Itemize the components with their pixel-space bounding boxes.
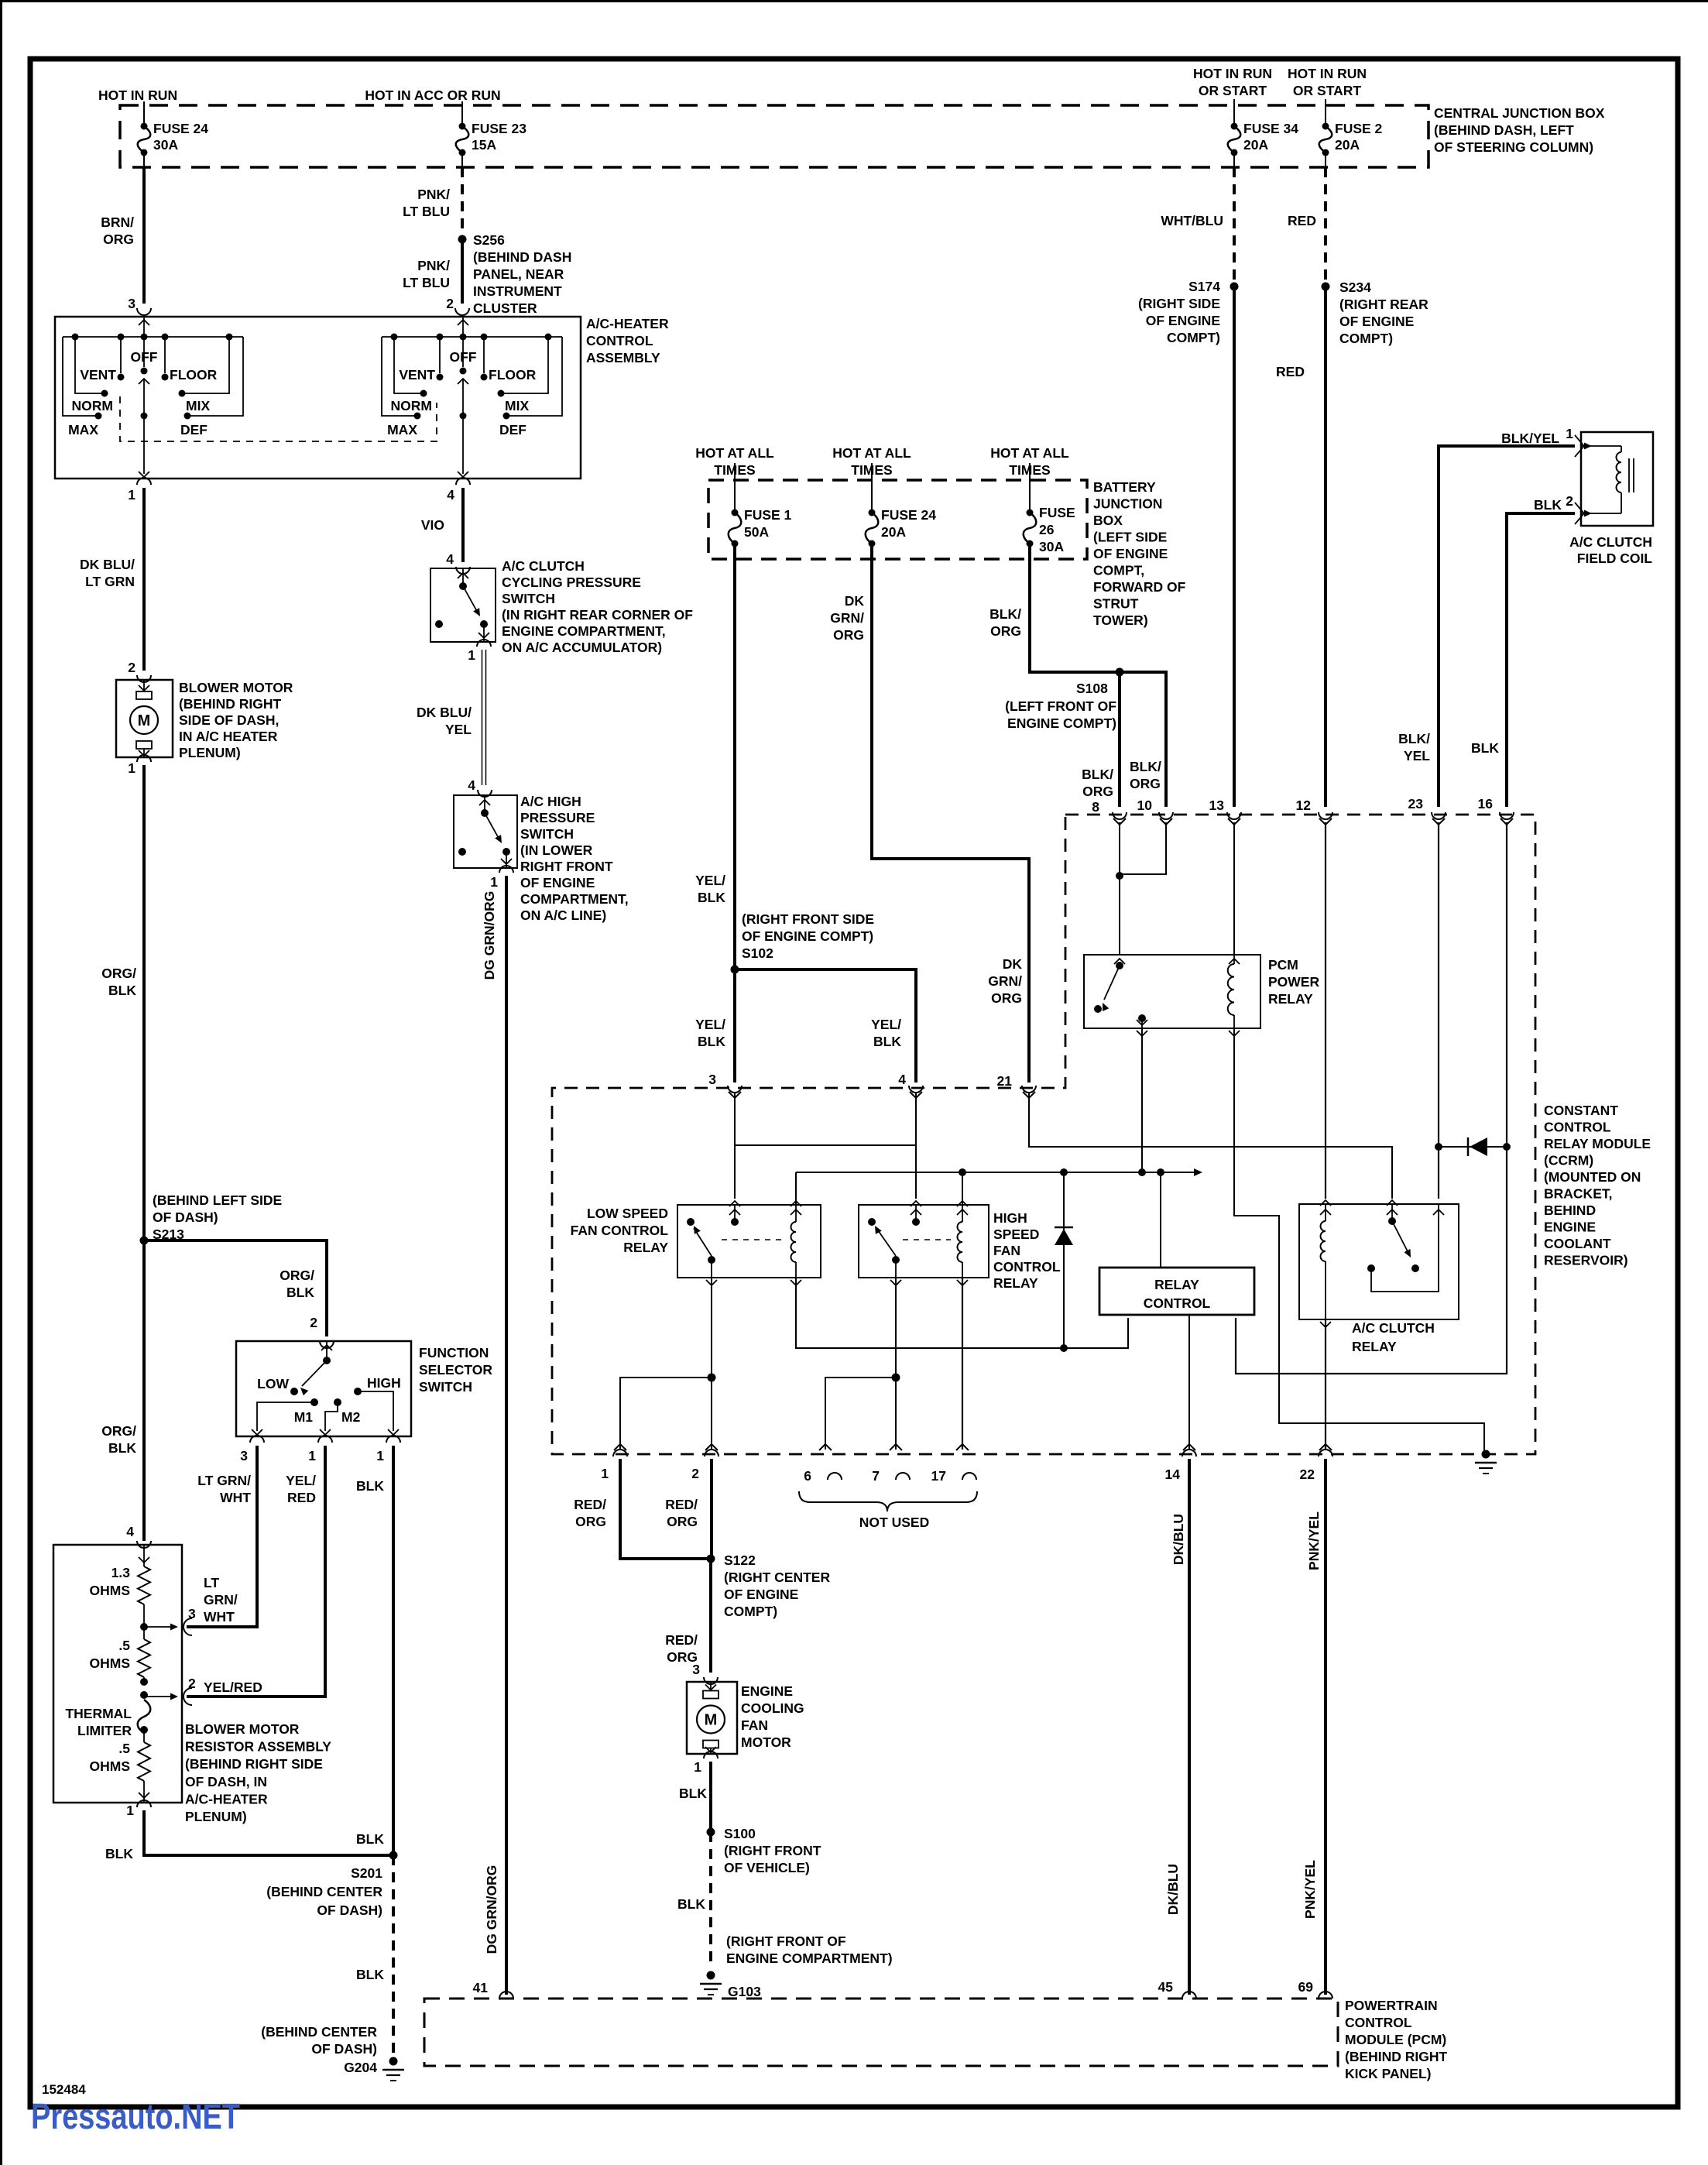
contact DEF with jumper [184, 413, 191, 420]
svg-text:LIMITER: LIMITER [77, 1723, 132, 1738]
svg-text:SIDE OF DASH,: SIDE OF DASH, [179, 712, 279, 728]
svg-text:FAN CONTROL: FAN CONTROL [571, 1223, 669, 1238]
wire fuse23 to S256 PNK/LT BLU dashed [461, 156, 463, 167]
svg-text:WHT/BLU: WHT/BLU [1161, 213, 1223, 228]
wire CCRM pin22 PNK/YEL to PCM pin 69 [1324, 1459, 1327, 1995]
svg-text:OF DASH): OF DASH) [153, 1209, 218, 1225]
resistor 1.3 ohms [138, 1566, 150, 1604]
svg-text:SWITCH: SWITCH [502, 591, 555, 606]
wire field coil pin1 to CCRM pin 23 BLK/YEL [1439, 446, 1575, 807]
svg-text:BLK/YEL: BLK/YEL [1501, 431, 1559, 446]
svg-text:PNK/YEL: PNK/YEL [1306, 1511, 1322, 1570]
high speed relay common node [912, 1218, 920, 1226]
high pressure switch pin 1 connector [499, 866, 513, 873]
contact MIX with jumper [498, 390, 505, 397]
splice S102 [731, 966, 739, 974]
svg-text:ORG: ORG [1130, 776, 1161, 791]
svg-text:BLK: BLK [356, 1967, 384, 1982]
svg-text:30A: 30A [153, 137, 178, 153]
svg-text:BLK: BLK [679, 1786, 707, 1801]
wire S213 branch to function selector ORG/BLK [144, 1240, 327, 1336]
svg-text:FUNCTION: FUNCTION [419, 1345, 489, 1360]
svg-text:RIGHT FRONT: RIGHT FRONT [520, 859, 613, 874]
svg-text:15A: 15A [472, 137, 496, 153]
svg-text:S102: S102 [742, 945, 773, 961]
svg-text:69: 69 [1298, 1979, 1314, 1995]
svg-text:4: 4 [898, 1072, 906, 1087]
svg-text:RELAY MODULE: RELAY MODULE [1544, 1136, 1651, 1151]
svg-text:.5: .5 [118, 1638, 130, 1653]
svg-text:WHT: WHT [204, 1609, 235, 1625]
cycling switch pin 4 connector [456, 567, 470, 574]
wire CCRM pin14 DK/BLU to PCM pin 45 [1188, 1459, 1191, 1995]
svg-text:ENGINE COMPARTMENT): ENGINE COMPARTMENT) [726, 1951, 893, 1966]
svg-text:RED: RED [1276, 364, 1305, 379]
svg-text:3: 3 [240, 1448, 248, 1463]
svg-text:BLK/: BLK/ [989, 606, 1021, 622]
PCM relay switch common node [1116, 962, 1123, 969]
wire control pin4 to cycling switch VIO [461, 488, 465, 562]
wire control pin1 to blower motor DK BLU/LT GRN [142, 488, 146, 671]
svg-text:(RIGHT REAR: (RIGHT REAR [1339, 297, 1428, 312]
svg-text:SPEED: SPEED [993, 1227, 1039, 1242]
svg-text:17: 17 [931, 1468, 946, 1484]
svg-text:ENGINE COMPARTMENT,: ENGINE COMPARTMENT, [502, 623, 666, 639]
svg-text:KICK PANEL): KICK PANEL) [1345, 2066, 1431, 2081]
low speed relay coil [795, 1205, 797, 1222]
PCM relay coil [1233, 955, 1235, 964]
scan artifact top edge line [0, 0, 1708, 2]
svg-text:(LEFT FRONT OF: (LEFT FRONT OF [1005, 698, 1116, 714]
svg-text:1: 1 [128, 487, 135, 503]
svg-text:(BEHIND RIGHT: (BEHIND RIGHT [1345, 2049, 1448, 2064]
fuse 26 30A [1027, 510, 1034, 516]
svg-text:(RIGHT FRONT SIDE: (RIGHT FRONT SIDE [742, 911, 874, 927]
svg-text:1: 1 [308, 1448, 316, 1463]
svg-text:HOT IN RUN: HOT IN RUN [1288, 66, 1367, 81]
svg-text:BLOWER MOTOR: BLOWER MOTOR [179, 680, 293, 695]
high speed relay output wire [895, 1260, 897, 1278]
svg-text:GRN/: GRN/ [988, 973, 1022, 989]
cycling switch pin 1 connector [477, 640, 491, 647]
svg-text:FIELD COIL: FIELD COIL [1577, 551, 1653, 566]
contact OFF [143, 337, 145, 367]
svg-text:RED: RED [1288, 213, 1316, 228]
fuse F24 feed stub [143, 101, 145, 123]
high speed relay NO contact [868, 1218, 876, 1226]
svg-text:RELAY: RELAY [993, 1275, 1038, 1291]
svg-text:YEL/: YEL/ [695, 1017, 725, 1032]
thermal limiter [138, 1700, 151, 1733]
wire pin3 to low speed relay common [734, 1093, 736, 1199]
contact OFF [462, 337, 464, 367]
svg-text:A/C CLUTCH: A/C CLUTCH [1352, 1320, 1435, 1336]
svg-text:YEL/: YEL/ [695, 873, 725, 888]
fan motor pin 1 connector [704, 1752, 718, 1758]
svg-text:(BEHIND RIGHT SIDE: (BEHIND RIGHT SIDE [185, 1756, 323, 1772]
svg-text:PCM: PCM [1268, 957, 1298, 973]
svg-text:20A: 20A [881, 524, 906, 540]
function selector switch box [236, 1341, 411, 1436]
resistor tap to pin 3 [143, 1604, 145, 1627]
svg-text:OF DASH, IN: OF DASH, IN [185, 1774, 267, 1789]
A/C clutch relay contact right [1411, 1264, 1419, 1272]
svg-text:14: 14 [1165, 1467, 1181, 1482]
fuse 1 50A [732, 510, 739, 516]
svg-text:ENGINE: ENGINE [1544, 1220, 1596, 1235]
svg-text:1: 1 [694, 1759, 701, 1775]
clamp diode D1 [1063, 1172, 1065, 1348]
svg-text:12: 12 [1296, 798, 1312, 813]
svg-text:FUSE: FUSE [1039, 505, 1075, 520]
svg-text:BLK: BLK [108, 983, 136, 998]
svg-text:S234: S234 [1339, 280, 1371, 295]
wire HIGH to pin 1 right [358, 1391, 393, 1431]
low speed relay common node [731, 1218, 739, 1226]
svg-text:(BEHIND RIGHT: (BEHIND RIGHT [179, 696, 282, 712]
svg-text:3: 3 [708, 1072, 716, 1087]
PCM relay switch arm [1104, 966, 1120, 1000]
high pressure switch open contact [458, 848, 466, 856]
resistor feed arrow [143, 1545, 145, 1566]
svg-text:SWITCH: SWITCH [419, 1379, 472, 1395]
contact M1 [310, 1398, 318, 1406]
svg-text:OR START: OR START [1199, 83, 1267, 98]
wire pin13 to PCM relay coil [1233, 822, 1235, 955]
svg-text:30A: 30A [1039, 539, 1064, 554]
svg-text:OHMS: OHMS [90, 1655, 131, 1671]
svg-text:CONTROL: CONTROL [993, 1259, 1061, 1275]
wire A/C clutch relay coil to CCRM pin 22 [1325, 1319, 1326, 1450]
svg-text:OF ENGINE: OF ENGINE [1339, 314, 1414, 329]
svg-text:OF ENGINE: OF ENGINE [1093, 546, 1168, 561]
splice S108 [1116, 668, 1124, 677]
svg-text:PLENUM): PLENUM) [179, 745, 241, 760]
low speed fan control relay box [677, 1205, 821, 1278]
cycling switch open contact [435, 620, 443, 628]
fuse 1 feed stub [734, 463, 736, 510]
CCRM pin 22 connector [1319, 1444, 1332, 1450]
resistor assembly pin 4 connector [137, 1541, 151, 1548]
svg-text:23: 23 [1408, 796, 1424, 811]
svg-text:LT: LT [204, 1575, 219, 1590]
field coil pin 2 connector [1575, 503, 1584, 524]
svg-text:20A: 20A [1335, 137, 1360, 153]
svg-text:CONTROL: CONTROL [1345, 2015, 1412, 2030]
node pin16 diode junction [1503, 1143, 1511, 1151]
node bus to clamp diode [1060, 1168, 1068, 1176]
wire bus to relay control box [1160, 1172, 1161, 1268]
svg-text:ORG/: ORG/ [280, 1268, 314, 1283]
wire field coil pin2 to CCRM pin 16 BLK [1507, 513, 1575, 807]
resistor tap to pin 2 [143, 1677, 145, 1682]
svg-text:(RIGHT FRONT: (RIGHT FRONT [724, 1843, 821, 1858]
wire to CCRM pin 2 [711, 1378, 712, 1450]
svg-text:HOT AT ALL: HOT AT ALL [990, 445, 1069, 461]
high pressure switch feed arrow [484, 795, 485, 810]
svg-text:21: 21 [997, 1073, 1013, 1089]
splice S122 [707, 1555, 715, 1563]
svg-text:FAN: FAN [993, 1243, 1020, 1258]
svg-text:DG GRN/ORG: DG GRN/ORG [482, 891, 497, 980]
svg-text:RELAY: RELAY [1154, 1277, 1199, 1292]
function selector feed arrow [326, 1341, 328, 1357]
wire cycling switch to high pressure switch DK BLU/YEL (double line) [482, 650, 483, 785]
fuse 24 bjb feed stub [871, 463, 873, 510]
high pressure switch output [506, 852, 507, 868]
field coil winding U1 [1581, 445, 1621, 447]
svg-text:FUSE 1: FUSE 1 [744, 507, 792, 523]
svg-text:1: 1 [490, 874, 498, 890]
svg-text:BLK: BLK [1471, 740, 1499, 756]
svg-text:POWER: POWER [1268, 974, 1319, 990]
resistor .5 ohms upper [143, 1627, 145, 1639]
svg-text:OF DASH): OF DASH) [317, 1903, 382, 1918]
high pressure switch arm [485, 813, 500, 841]
field coil pin 1 connector [1575, 435, 1584, 457]
svg-text:G204: G204 [344, 2060, 377, 2075]
relay control box [1099, 1268, 1254, 1315]
control assembly pin 4 connector [456, 478, 470, 485]
PCM power relay box [1084, 955, 1260, 1028]
A/C clutch relay box [1299, 1204, 1459, 1319]
node bus to high speed coil [959, 1168, 966, 1176]
wire high pressure switch to PCM pin 41 DG GRN/ORG [505, 876, 508, 1995]
svg-text:M2: M2 [341, 1409, 361, 1425]
svg-text:3: 3 [128, 296, 135, 311]
svg-text:SWITCH: SWITCH [520, 826, 574, 842]
node bus from PCM relay [1138, 1168, 1146, 1176]
svg-text:FUSE 2: FUSE 2 [1335, 121, 1383, 136]
wire fuse34 to S174 WHT/BLU dashed [1233, 156, 1235, 167]
low speed relay NO contact [687, 1218, 695, 1226]
contact VENT [120, 337, 122, 373]
svg-text:VENT: VENT [399, 367, 435, 383]
svg-text:BLOWER MOTOR: BLOWER MOTOR [185, 1721, 300, 1737]
function selector pin 1 connector (YEL/RED) [318, 1436, 332, 1443]
wire fan motor BLK to S100 [709, 1762, 712, 1832]
svg-text:2: 2 [1566, 493, 1573, 509]
svg-text:WHT: WHT [220, 1490, 251, 1505]
svg-text:PNK/: PNK/ [417, 258, 450, 273]
function selector wiper arm to LOW [302, 1360, 327, 1386]
wire fuse26 to S108 BLK/ORG [1030, 547, 1120, 672]
rotary output wire to exit pin [143, 416, 145, 474]
svg-text:BLK: BLK [1534, 497, 1562, 513]
svg-text:NORM: NORM [391, 398, 432, 413]
svg-text:S174: S174 [1188, 279, 1220, 294]
svg-text:(BEHIND CENTER: (BEHIND CENTER [261, 2024, 377, 2040]
wire pin23 to A/C clutch relay NC [1438, 822, 1439, 1199]
svg-text:PRESSURE: PRESSURE [520, 810, 595, 825]
svg-text:FUSE 24: FUSE 24 [153, 121, 208, 136]
svg-text:NOT USED: NOT USED [859, 1515, 929, 1530]
svg-text:1: 1 [128, 760, 135, 776]
ganged-switch mechanical dashed link [120, 396, 437, 441]
svg-text:S256: S256 [473, 232, 505, 248]
svg-text:(RIGHT CENTER: (RIGHT CENTER [724, 1570, 830, 1585]
cycling switch contact [480, 620, 488, 628]
svg-text:RED/: RED/ [574, 1497, 606, 1512]
svg-text:BLK/: BLK/ [1130, 759, 1161, 774]
svg-text:4: 4 [446, 551, 454, 567]
svg-text:ON A/C LINE): ON A/C LINE) [520, 908, 606, 923]
svg-text:POWERTRAIN: POWERTRAIN [1345, 1998, 1438, 2013]
wire S100 BLK dashed to G103 [709, 1832, 712, 1968]
svg-text:DK/BLU: DK/BLU [1171, 1514, 1186, 1565]
svg-text:FORWARD OF: FORWARD OF [1093, 579, 1186, 595]
svg-text:BLK: BLK [105, 1846, 133, 1861]
blower motor [116, 680, 173, 757]
wire S108 to CCRM pin 8 BLK/ORG [1118, 672, 1121, 807]
svg-text:A/C HIGH: A/C HIGH [520, 794, 581, 809]
splice S100 [707, 1828, 715, 1837]
svg-text:BLK: BLK [873, 1034, 901, 1049]
svg-text:RED/: RED/ [665, 1632, 698, 1648]
svg-text:A/C-HEATER: A/C-HEATER [185, 1791, 268, 1806]
A/C-heater control assembly box [55, 317, 581, 479]
rotary switch bus wire [382, 336, 562, 338]
wire pin12 to A/C clutch relay coil [1325, 822, 1326, 1199]
wire function pin1 BLK to S201 [392, 1446, 395, 1855]
svg-text:HOT IN ACC OR RUN: HOT IN ACC OR RUN [365, 87, 500, 103]
svg-text:3: 3 [692, 1662, 700, 1677]
svg-text:(BEHIND DASH: (BEHIND DASH [473, 249, 571, 265]
svg-text:(IN RIGHT REAR CORNER OF: (IN RIGHT REAR CORNER OF [502, 607, 693, 623]
svg-text:HOT IN RUN: HOT IN RUN [98, 87, 177, 103]
svg-text:3: 3 [188, 1606, 196, 1621]
svg-text:MOTOR: MOTOR [741, 1734, 791, 1750]
svg-text:(MOUNTED ON: (MOUNTED ON [1544, 1169, 1641, 1185]
PCM relay switch feed arrow [1114, 959, 1125, 964]
svg-text:(IN LOWER: (IN LOWER [520, 842, 593, 858]
fuse 23 feed stub [461, 101, 463, 123]
wire S102 to CCRM pin 3 YEL/BLK [733, 969, 736, 1082]
svg-text:16: 16 [1478, 796, 1494, 811]
A/C high pressure switch box [454, 795, 517, 868]
svg-text:THERMAL: THERMAL [65, 1706, 132, 1721]
fuse 2 feed stub [1325, 99, 1326, 123]
wire pin10 join to pin8 [1120, 822, 1166, 874]
wire fuse24 to CCRM pin 21 DK GRN/ORG [872, 547, 1029, 1082]
svg-text:PNK/YEL: PNK/YEL [1302, 1860, 1318, 1919]
svg-text:A/C CLUTCH: A/C CLUTCH [1569, 534, 1652, 550]
cycling switch common node [459, 582, 467, 590]
svg-text:(CCRM): (CCRM) [1544, 1153, 1593, 1168]
svg-text:6: 6 [804, 1468, 811, 1484]
svg-text:BATTERY: BATTERY [1093, 479, 1156, 495]
resistor assembly pin 3 connector [183, 1618, 192, 1635]
fuse 24 30A [141, 123, 148, 130]
function selector pin 3 connector [250, 1436, 264, 1443]
relay coil feed bus [796, 1172, 1199, 1173]
svg-text:LT GRN: LT GRN [85, 574, 135, 589]
svg-text:GRN/: GRN/ [830, 610, 864, 626]
node bus to relay control [1157, 1168, 1164, 1176]
svg-text:LT BLU: LT BLU [403, 204, 450, 219]
wire PCM relay output to relay-feed bus [1141, 1028, 1143, 1172]
svg-text:DK: DK [845, 593, 865, 609]
cycling switch arm [463, 586, 478, 614]
svg-text:DK/BLU: DK/BLU [1165, 1864, 1181, 1915]
wire relay control to CCRM pin 14 [1188, 1315, 1190, 1450]
svg-text:CONTROL: CONTROL [1144, 1295, 1211, 1311]
CCRM pin 14 connector [1183, 1444, 1195, 1450]
svg-text:S108: S108 [1076, 681, 1108, 696]
scan artifact left edge line [0, 0, 2, 2165]
svg-text:YEL: YEL [445, 722, 472, 737]
svg-text:ORG: ORG [990, 623, 1021, 639]
svg-text:PLENUM): PLENUM) [185, 1809, 247, 1824]
fuse 34 20A [1231, 123, 1238, 130]
svg-text:A/C-HEATER: A/C-HEATER [586, 316, 669, 331]
svg-text:COMPT,: COMPT, [1093, 563, 1144, 578]
svg-text:YEL/RED: YEL/RED [204, 1680, 262, 1695]
svg-text:MIX: MIX [186, 398, 210, 413]
low speed relay output wire [711, 1260, 712, 1278]
svg-text:Pressauto.NET: Pressauto.NET [31, 2096, 240, 2136]
svg-text:OF STEERING COLUMN): OF STEERING COLUMN) [1434, 139, 1593, 155]
low speed relay arm [694, 1228, 712, 1256]
wire low speed coil to relay control bus [796, 1278, 1128, 1348]
svg-text:1: 1 [376, 1448, 384, 1463]
svg-text:NORM: NORM [72, 398, 113, 413]
CCRM pin 1 connector [614, 1444, 626, 1450]
low speed relay gang dash [722, 1239, 785, 1240]
low speed relay switch feed arrow [734, 1205, 736, 1219]
node clamp diode lower [1060, 1344, 1068, 1352]
svg-text:BEHIND: BEHIND [1544, 1203, 1596, 1218]
svg-text:PANEL, NEAR: PANEL, NEAR [473, 266, 564, 282]
svg-text:2: 2 [128, 660, 135, 675]
svg-text:BRN/: BRN/ [101, 214, 134, 230]
svg-text:RED/: RED/ [665, 1497, 698, 1512]
cycling switch output [483, 624, 485, 642]
wire S234 to CCRM pin 12 RED [1324, 286, 1327, 807]
splice S174 [1230, 283, 1239, 291]
CCRM case ground [1482, 1450, 1490, 1459]
high speed relay arm [876, 1228, 896, 1256]
high speed relay gang dash [903, 1239, 951, 1240]
svg-text:LT GRN/: LT GRN/ [197, 1473, 251, 1488]
svg-text:BLK: BLK [356, 1831, 384, 1847]
cycling switch feed arrow [462, 568, 464, 583]
svg-text:FUSE 23: FUSE 23 [472, 121, 526, 136]
svg-text:1.3: 1.3 [111, 1565, 131, 1580]
svg-text:CONTROL: CONTROL [1544, 1120, 1611, 1135]
control assembly pin 1 connector [137, 478, 151, 485]
svg-text:4: 4 [468, 777, 475, 793]
rotary switch feed arrow [462, 317, 464, 335]
svg-text:13: 13 [1209, 798, 1225, 813]
svg-text:2: 2 [310, 1315, 317, 1330]
wire function pin3 to resistor pin3 LT GRN/WHT [187, 1446, 257, 1627]
svg-text:DG GRN/ORG: DG GRN/ORG [484, 1865, 499, 1954]
svg-text:ORG: ORG [103, 232, 134, 247]
contact NORM with jumper [420, 390, 427, 397]
contact FLOOR [164, 337, 166, 373]
wire to CCRM pin 6 [825, 1378, 896, 1450]
svg-text:LT BLU: LT BLU [403, 275, 450, 290]
splice S213 [140, 1237, 149, 1245]
resistor assembly pin 1 connector [137, 1800, 151, 1807]
contact DEF with jumper [503, 413, 510, 420]
function selector pin 1 connector (BLK) [386, 1436, 400, 1443]
wire PCM relay coil to CCRM ground [1234, 1028, 1484, 1451]
wire CCRM pin2 RED/ORG to fan motor [710, 1459, 713, 1559]
rotary output wire to exit pin [462, 416, 464, 474]
svg-text:CENTRAL JUNCTION BOX: CENTRAL JUNCTION BOX [1434, 105, 1605, 121]
